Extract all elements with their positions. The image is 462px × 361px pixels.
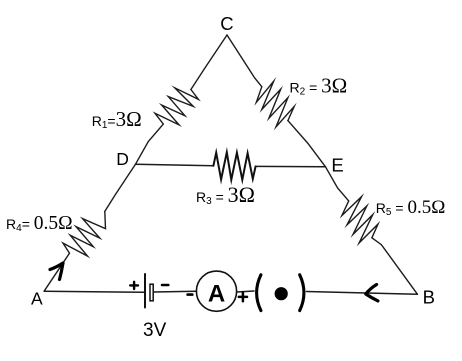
wire A to battery [44, 291, 145, 292]
svg-text:A: A [208, 281, 225, 308]
wire R3 to node E [256, 165, 326, 167]
resistor R4 [63, 211, 106, 256]
svg-text:C: C [220, 13, 233, 34]
resistor R5 [342, 197, 378, 243]
svg-text:3V: 3V [143, 320, 167, 341]
wire R1 to node D [136, 124, 164, 164]
battery minus sign [162, 284, 168, 287]
svg-text:D: D [116, 149, 129, 169]
arrow on wire A-D [50, 263, 63, 280]
wire R2 to node E [288, 121, 326, 167]
battery plus sign [130, 282, 138, 289]
wire R5 to vertex B [372, 238, 418, 294]
svg-text:B: B [423, 286, 435, 307]
svg-text:E: E [331, 155, 343, 176]
ammeter minus sign [188, 293, 193, 296]
wire C to R2 (right upper side) [227, 35, 262, 87]
wire C to R1 (left upper side) [191, 35, 227, 90]
ammeter plus sign [239, 293, 247, 302]
plug key dot [275, 287, 288, 300]
svg-text:R4= 0.5Ω: R4= 0.5Ω [6, 213, 73, 234]
svg-text:A: A [31, 288, 43, 308]
battery long plate [144, 274, 146, 308]
svg-text:R1=3Ω: R1=3Ω [92, 107, 142, 131]
wire node E to R5 (right lower side) [326, 167, 349, 201]
wire key to B [307, 292, 418, 295]
resistor R3 [213, 152, 255, 180]
plug key right paren [300, 275, 304, 311]
svg-text:R5 = 0.5Ω: R5 = 0.5Ω [376, 197, 446, 218]
resistor R1 [155, 88, 199, 125]
wire battery to ammeter [153, 290, 196, 293]
wire node D to R3 [136, 164, 214, 166]
ammeter U1 circle [196, 271, 236, 311]
plug key left paren [257, 275, 261, 311]
svg-text:R2 = 3Ω: R2 = 3Ω [290, 73, 348, 97]
wire R4 to vertex A [44, 253, 69, 291]
battery short plate [150, 284, 153, 301]
svg-text:R3 = 3Ω: R3 = 3Ω [196, 182, 255, 207]
resistor R2 [256, 81, 294, 127]
arrow on wire B side [366, 285, 378, 301]
wire node D to R4 (left lower side) [105, 164, 136, 211]
wire ammeter to key [237, 291, 254, 292]
